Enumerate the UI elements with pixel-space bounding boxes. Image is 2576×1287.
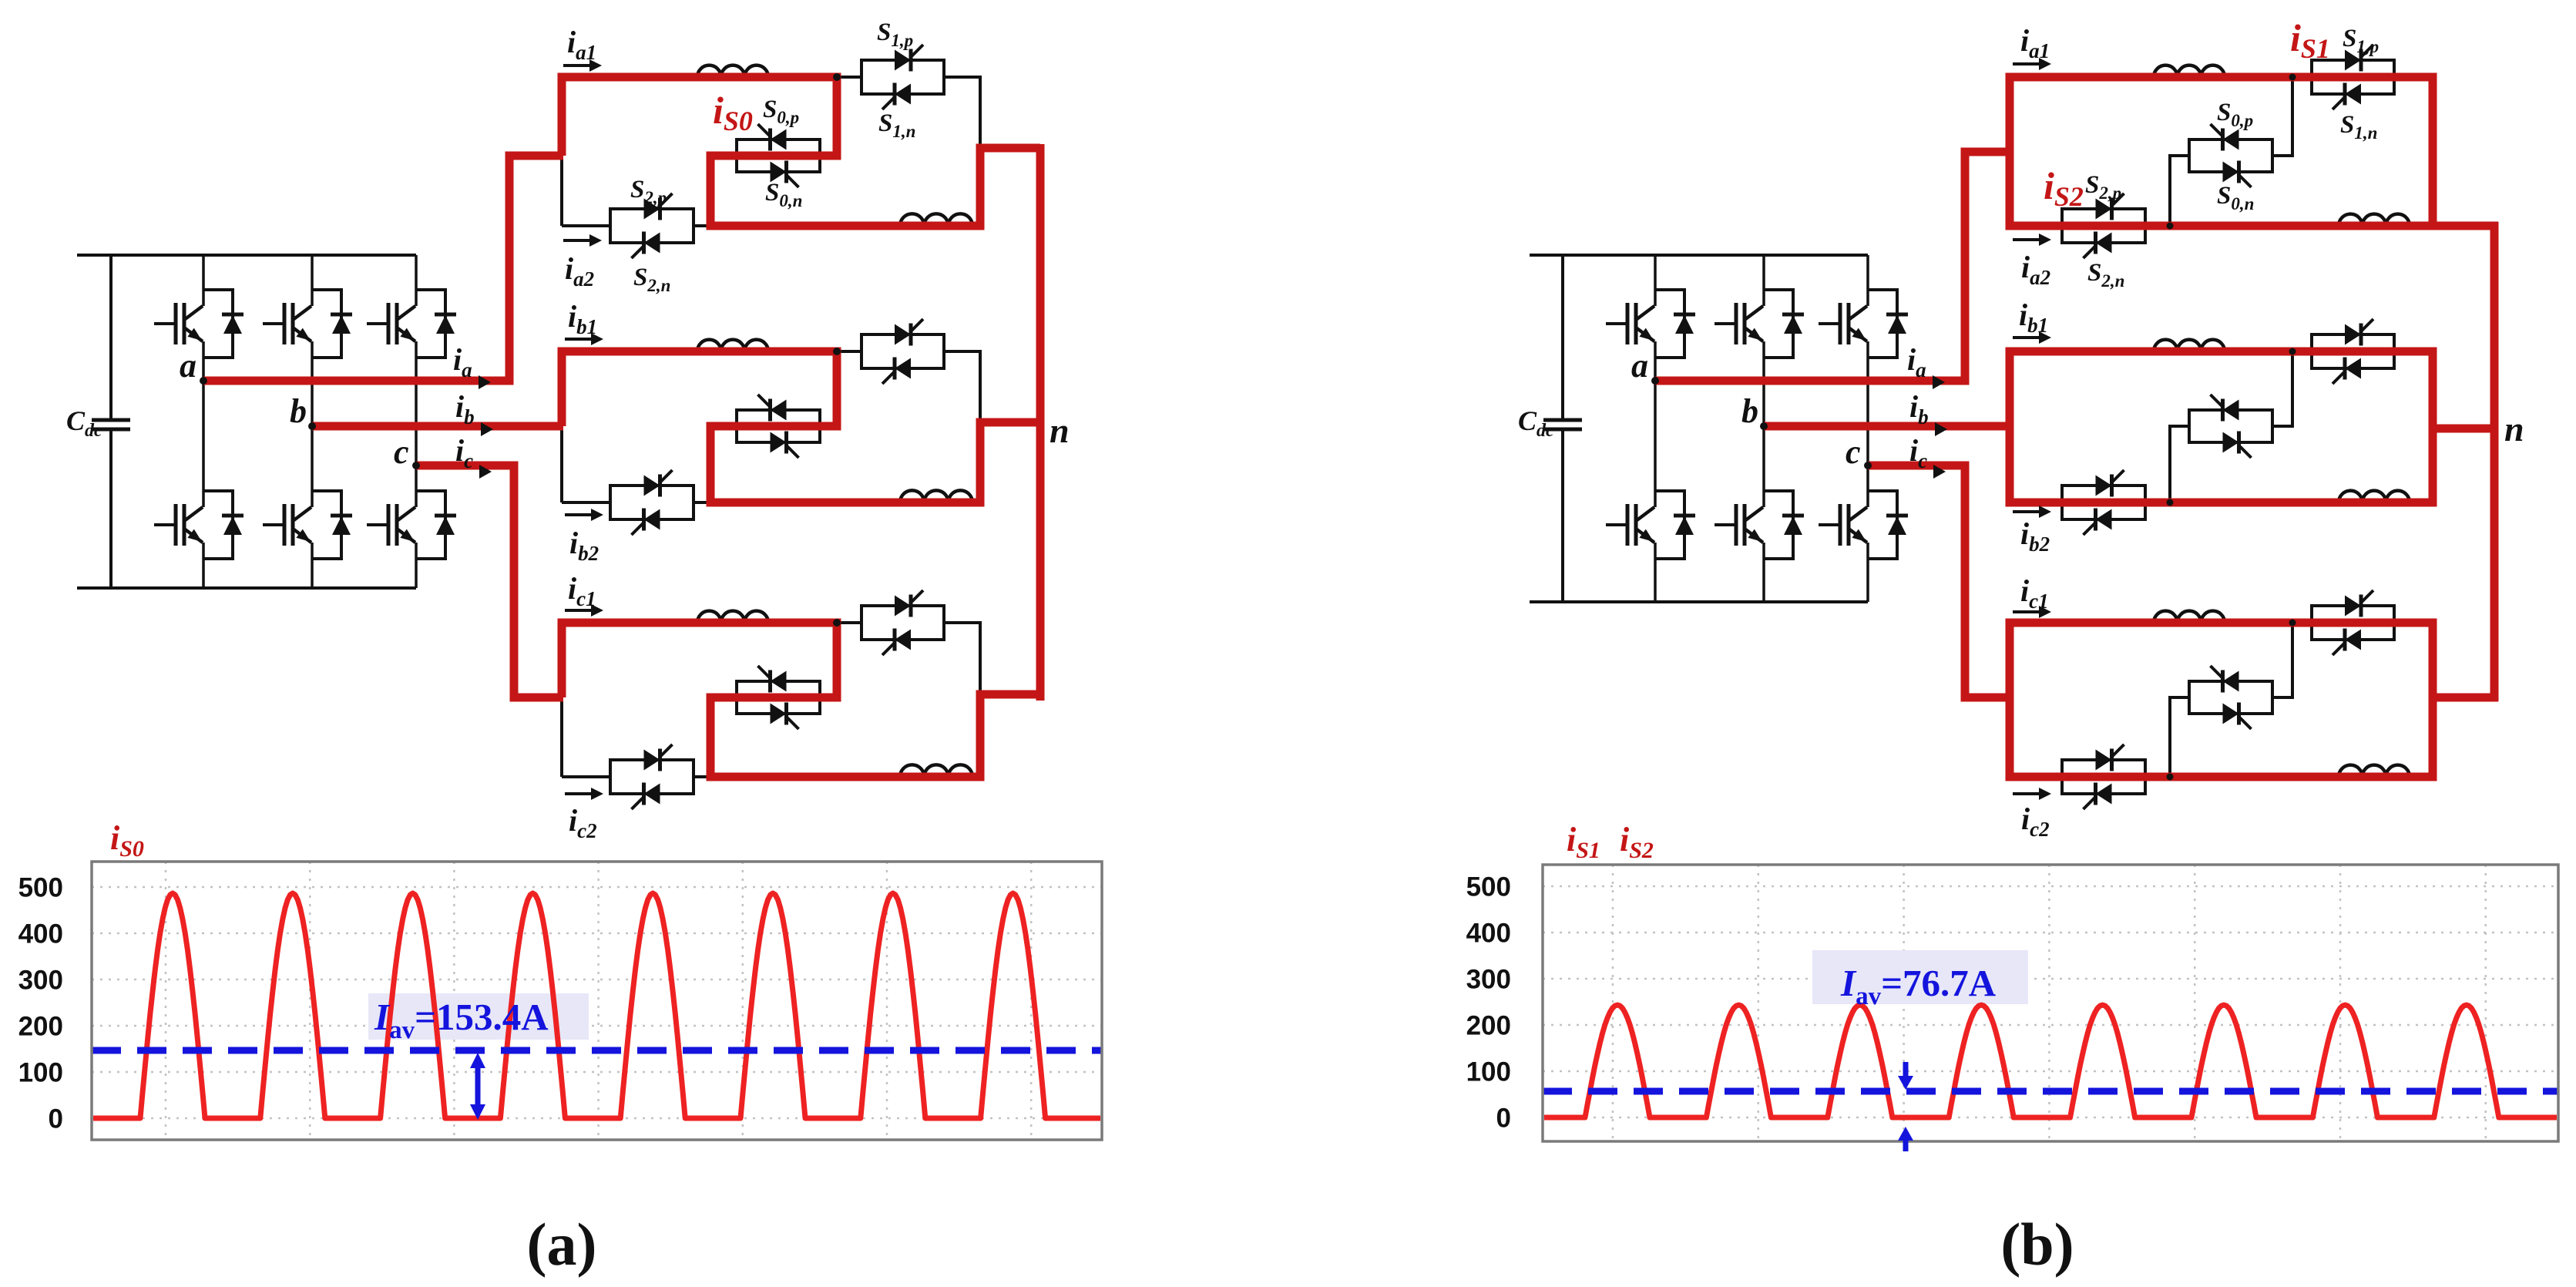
svg-text:200: 200: [1466, 1011, 1511, 1041]
junction S0 bottom branch c (panel b): [2167, 774, 2174, 781]
arrow ic (panel b): [1933, 465, 1946, 479]
wire inverter leg a (panel b): [1654, 255, 1657, 602]
thyristor pair S2 box branch b (panel a): [610, 470, 694, 535]
svg-text:200: 200: [18, 1012, 63, 1042]
wire branch c S1 output (panel a): [942, 623, 980, 694]
arrow ia1 (panel b): [2013, 62, 2042, 66]
junction S0 top branch a (panel b): [2289, 74, 2296, 81]
red feed phase b (panel b): [1764, 422, 2011, 431]
arrow ia2 (panel b): [2013, 238, 2042, 241]
arrow ib2 (panel a): [565, 513, 594, 516]
svg-text:a: a: [180, 347, 196, 385]
IGBT bottom leg b (panel a): [263, 491, 352, 559]
wire branch c bottom line (panel a): [562, 775, 715, 778]
inductor branch c top (panel a): [697, 611, 768, 623]
wire S0 right connector branch b (panel b): [2272, 351, 2292, 426]
thyristor pair S2 box branch a (panel a): [610, 193, 694, 258]
red stub branch b to n (panel b): [2429, 425, 2498, 433]
red loop branch a (panel b): [2010, 77, 2433, 226]
capacitor Cdc (panel a): [92, 255, 130, 588]
wire branch b left lower (panel a): [560, 426, 563, 502]
thyristor pair S2 box branch a (panel b): [2062, 193, 2145, 258]
arrow ic1 (panel b): [2013, 610, 2042, 613]
red current waveform (plot a): [93, 893, 1100, 1118]
svg-text:400: 400: [18, 919, 63, 949]
thyristor pair S0 box branch c (panel b): [2189, 666, 2272, 729]
IGBT bottom leg c (panel b): [1819, 491, 1908, 559]
svg-text:400: 400: [1466, 919, 1511, 949]
svg-text:100: 100: [18, 1058, 63, 1088]
red stub branch c to n (panel b): [2429, 694, 2498, 702]
Iav text box (plot b): [1812, 950, 2028, 1004]
red loop branch b (panel b): [2010, 351, 2433, 502]
wire branch b bottom line (panel a): [562, 501, 715, 504]
thyristor pair S1 box branch c (panel a): [861, 590, 944, 655]
node a dot (panel a): [200, 377, 207, 385]
wire bottom DC bus (panel a): [77, 586, 416, 590]
thyristor pair S1 box branch a (panel a): [861, 45, 944, 109]
wire branch b top to S1 (panel a): [837, 350, 863, 353]
junction S0 bottom branch a (panel b): [2167, 223, 2174, 230]
y axis labels (plot a): [18, 873, 63, 1134]
IGBT bottom leg a (panel b): [1606, 491, 1695, 559]
svg-text:b: b: [1741, 392, 1758, 430]
IGBT top leg b (panel a): [263, 290, 352, 358]
svg-text:(b): (b): [2000, 1211, 2074, 1278]
red feed phase b (panel a): [312, 422, 563, 431]
wire S0 left connector branch b (panel b): [2170, 426, 2189, 502]
inductor branch a top (panel b): [2154, 66, 2225, 77]
Iav text box (plot a): [368, 993, 589, 1040]
red stub branch a to n (panel b): [2429, 222, 2498, 230]
thyristor pair S0 box branch c (panel a): [737, 666, 820, 729]
junction S0 top branch b (panel b): [2289, 348, 2296, 355]
inductor branch c bottom (panel b): [2339, 765, 2410, 777]
red path branch c (panel a): [562, 623, 1040, 777]
wire bottom DC bus (panel b): [1530, 600, 1868, 603]
blue dashed average line (plot b): [1543, 1088, 2558, 1095]
y axis labels (plot b): [1466, 872, 1511, 1134]
inductor branch b top (panel b): [2154, 340, 2225, 351]
arrow ic2 (panel a): [565, 792, 594, 795]
red feed phase c (panel b): [1868, 465, 2011, 697]
arrow ia1 (panel a): [563, 64, 593, 67]
blue up arrow (plot b): [1898, 1127, 1913, 1151]
svg-text:0: 0: [1496, 1104, 1511, 1134]
blue double arrow (plot a): [470, 1053, 485, 1120]
wire S0 right connector branch a (panel b): [2272, 77, 2292, 156]
red path branch a (panel a): [562, 77, 1040, 226]
plot gridlines (plot b): [1543, 865, 2558, 1141]
inductor branch a bottom (panel b): [2339, 214, 2410, 226]
IGBT top leg b (panel b): [1715, 290, 1804, 358]
wire inverter leg c (panel b): [1866, 255, 1869, 602]
IGBT bottom leg b (panel b): [1715, 491, 1804, 559]
arrow ic (panel a): [479, 465, 492, 479]
thyristor pair S1 box branch b (panel a): [861, 319, 944, 384]
IGBT top leg c (panel b): [1819, 290, 1908, 358]
junction S0 top branch c (panel b): [2289, 620, 2296, 627]
red feed phase a (panel b): [1655, 152, 2011, 381]
inductor branch b top (panel a): [697, 340, 768, 351]
plot gridlines (plot a): [92, 862, 1102, 1140]
wire branch b S1 output (panel a): [942, 351, 980, 422]
arrow ib (panel a): [481, 422, 493, 436]
arrow ib2 (panel b): [2013, 510, 2042, 513]
wire branch a left lower (panel a): [560, 156, 563, 226]
svg-text:c: c: [394, 433, 409, 471]
wire S0 left connector branch c (panel b): [2170, 697, 2189, 777]
inductor branch c top (panel b): [2154, 611, 2225, 623]
red feed phase a (panel a): [203, 156, 563, 381]
svg-text:100: 100: [1466, 1057, 1511, 1087]
thyristor pair S0 box branch b (panel a): [737, 395, 820, 458]
red path branch b (panel a): [562, 351, 1040, 502]
wire branch c top to S1 (panel a): [837, 621, 863, 624]
inductor branch b bottom (panel b): [2339, 491, 2410, 502]
wire top DC bus (panel a): [77, 254, 416, 257]
inductor branch b bottom (panel a): [900, 490, 972, 502]
svg-text:n: n: [1050, 411, 1070, 450]
svg-text:500: 500: [1466, 872, 1511, 902]
inductor branch a bottom (panel a): [900, 213, 972, 226]
arrow ic1 (panel a): [565, 609, 594, 612]
svg-text:300: 300: [1466, 965, 1511, 995]
red feed phase c (panel a): [416, 465, 563, 697]
svg-text:b: b: [290, 392, 307, 430]
red loop branch c (panel b): [2010, 623, 2433, 777]
thyristor pair S1 box branch a (panel b): [2312, 45, 2394, 109]
IGBT bottom leg a (panel a): [154, 491, 243, 559]
wire top DC bus (panel b): [1530, 254, 1868, 257]
wire branch c left lower (panel a): [560, 697, 563, 777]
IGBT top leg a (panel a): [154, 290, 243, 358]
node n line (panel b): [2490, 222, 2499, 701]
arrow ib (panel b): [1935, 422, 1947, 436]
arrow ia (panel a): [479, 375, 491, 389]
arrow ic2 (panel b): [2013, 792, 2042, 795]
wire inverter leg a (panel a): [202, 255, 205, 588]
IGBT top leg c (panel a): [367, 290, 456, 358]
wire branch a S1 output (panel a): [942, 77, 980, 148]
capacitor Cdc (panel b): [1543, 255, 1582, 602]
node a dot (panel b): [1651, 377, 1659, 385]
arrow ib1 (panel b): [2013, 336, 2042, 339]
svg-text:(a): (a): [527, 1211, 597, 1278]
wire branch a top to S1 (panel a): [837, 76, 863, 79]
wire inverter leg b (panel a): [311, 255, 314, 588]
wire branch a bottom line (panel a): [562, 224, 715, 227]
thyristor pair S1 box branch c (panel b): [2312, 590, 2394, 655]
node c dot (panel a): [412, 462, 420, 469]
inductor branch c bottom (panel a): [900, 764, 972, 777]
IGBT bottom leg c (panel a): [367, 491, 456, 559]
thyristor pair S0 box branch b (panel b): [2189, 395, 2272, 458]
IGBT top leg a (panel b): [1606, 290, 1695, 358]
node n line (panel a): [1036, 144, 1045, 701]
svg-text:300: 300: [18, 966, 63, 996]
plot frame (plot a): [92, 862, 1102, 1140]
wire inverter leg c (panel a): [415, 255, 418, 588]
arrow ia (panel b): [1933, 375, 1945, 389]
svg-text:n: n: [2504, 409, 2524, 449]
blue down arrow (plot b): [1898, 1062, 1913, 1090]
arrow ia2 (panel a): [563, 239, 593, 242]
node c dot (panel b): [1864, 462, 1872, 469]
junction S0 bottom branch b (panel b): [2167, 499, 2174, 506]
blue dashed average line (plot a): [92, 1047, 1102, 1054]
svg-text:a: a: [1631, 347, 1648, 385]
thyristor pair S0 box branch a (panel b): [2189, 124, 2272, 187]
node b dot (panel b): [1760, 422, 1768, 430]
red current waveform (plot b): [1544, 1005, 2557, 1117]
node b dot (panel a): [308, 422, 316, 430]
thyristor pair S2 box branch c (panel b): [2062, 744, 2145, 809]
thyristor pair S2 box branch c (panel a): [610, 744, 694, 809]
svg-text:0: 0: [49, 1104, 63, 1134]
wire S0 left connector branch a (panel b): [2170, 156, 2189, 226]
plot frame (plot b): [1543, 865, 2558, 1141]
wire inverter leg b (panel b): [1762, 255, 1765, 602]
svg-text:c: c: [1846, 433, 1861, 471]
junction branch a top (panel a): [833, 73, 841, 81]
svg-text:500: 500: [18, 873, 63, 903]
junction branch b top (panel a): [833, 348, 841, 355]
arrow ib1 (panel a): [565, 338, 594, 341]
wire S0 right connector branch c (panel b): [2272, 623, 2292, 697]
inductor branch a top (panel a): [697, 66, 768, 77]
thyristor pair S1 box branch b (panel b): [2312, 319, 2394, 384]
junction branch c top (panel a): [833, 619, 841, 627]
thyristor pair S0 box branch a (panel a): [737, 124, 820, 187]
thyristor pair S2 box branch b (panel b): [2062, 470, 2145, 535]
